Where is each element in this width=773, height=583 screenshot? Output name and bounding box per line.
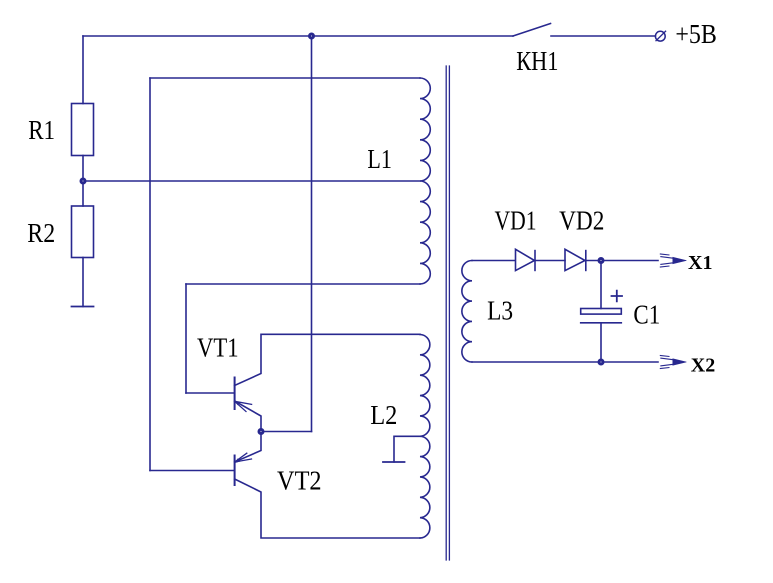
svg-text:L2: L2 — [370, 400, 397, 430]
svg-text:VT2: VT2 — [277, 466, 322, 496]
svg-text:VD2: VD2 — [559, 206, 604, 236]
svg-text:КН1: КН1 — [516, 46, 558, 76]
svg-text:L1: L1 — [367, 144, 392, 174]
svg-text:VD1: VD1 — [495, 206, 537, 236]
svg-text:L3: L3 — [487, 296, 513, 326]
svg-text:R1: R1 — [28, 115, 55, 145]
svg-text:C1: C1 — [633, 299, 660, 329]
svg-text:X2: X2 — [691, 355, 715, 377]
svg-text:X1: X1 — [688, 252, 712, 274]
svg-text:VT1: VT1 — [197, 332, 239, 362]
svg-text:R2: R2 — [27, 218, 55, 248]
svg-text:+5В: +5В — [675, 19, 717, 49]
